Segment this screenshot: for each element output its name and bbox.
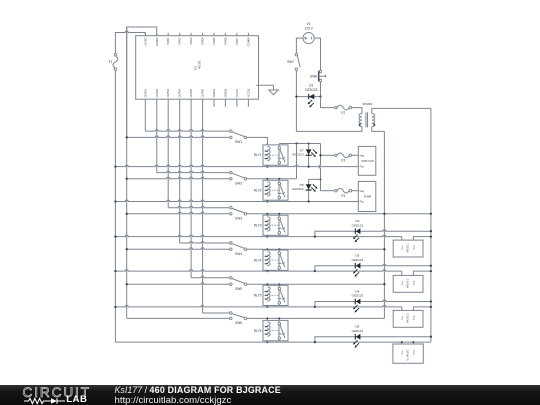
svg-text:Pos: Pos (402, 350, 404, 355)
node B junction (319, 95, 321, 97)
node D8 cathode junction (307, 200, 309, 202)
switch SW5 (230, 277, 233, 280)
IC U1 bottom pin 18 (224, 99, 226, 107)
svg-text:120 V: 120 V (304, 27, 313, 31)
node RLY5 contact pin junction (278, 283, 280, 285)
node supply bus row 5 (126, 283, 128, 285)
node relay supply row 5 (383, 283, 385, 285)
IC U1 top pin 8 (224, 33, 226, 36)
node D7 cathode junction (307, 165, 309, 167)
wire SW2 common to bus (247, 178, 297, 180)
wire SW6 common to bus (247, 317, 385, 319)
node VALVE 1 right pin junction (430, 235, 432, 237)
switch SW4 (230, 242, 233, 245)
IC U1 top pin 2 (156, 33, 158, 36)
wire F3 feed (321, 154, 335, 156)
switch SW3 (230, 206, 233, 209)
transformer XFMR1 core (365, 112, 367, 127)
wire F4 to PUMP box (352, 190, 359, 192)
node VALVE 3 right pin junction (430, 306, 432, 308)
svg-text:Pos: Pos (360, 201, 365, 204)
node neutral bus row 4 (114, 270, 116, 272)
svg-text:Neg: Neg (360, 190, 365, 193)
IC U1 bottom pin 20 (247, 99, 249, 107)
valve box VALVE 2 (393, 275, 423, 292)
wire right return bus (430, 108, 432, 342)
switch SW6 (230, 312, 233, 315)
wire left supply bus (126, 27, 128, 318)
wire IC ground pin (256, 85, 273, 90)
IC U1 top pin 5 (190, 33, 192, 36)
wire MASTER left pin (401, 342, 403, 344)
IC U1 top pin 10 (247, 33, 249, 36)
relay RLY5 (263, 285, 279, 305)
LED D7 (308, 144, 310, 167)
wire F3 to PWR box (352, 154, 359, 156)
wire VALVE 3 left pin (401, 307, 403, 311)
node supply bus row 4 (126, 248, 128, 250)
wire RLY4 coil pin (266, 248, 268, 251)
IC U1 bottom pin 19 (236, 99, 238, 107)
wire IC pin1 to SW1 top (144, 99, 146, 131)
ground symbol (269, 90, 279, 95)
wire IC pin4 to SW4 top (179, 99, 181, 243)
node D3 right junction (430, 265, 432, 267)
wire rung row 6 (115, 341, 431, 343)
svg-text:GED123: GED123 (352, 294, 364, 298)
wire rung row 5 (115, 305, 401, 306)
svg-text:OUT02: OUT02 (155, 88, 159, 97)
svg-text:Pos: Pos (402, 280, 404, 285)
svg-text:SW1: SW1 (235, 140, 242, 144)
node relay supply row 3 right (430, 213, 432, 215)
node MASTER left pin junction (401, 341, 403, 343)
wire D2 branch (315, 230, 431, 237)
LED D3 (356, 263, 361, 269)
IC U1 top pin 4 (179, 33, 181, 36)
valve box VALVE 3 (393, 310, 423, 327)
node supply bus row 2 (126, 178, 128, 180)
node D4 stub junction (314, 306, 316, 308)
svg-text:F3: F3 (341, 159, 345, 163)
svg-text:Neg: Neg (360, 154, 365, 157)
svg-text:GND02: GND02 (223, 88, 227, 97)
wire XFMR1 primary return (296, 127, 362, 132)
wire VALVE 2 right pin (413, 271, 431, 275)
svg-text:F1: F1 (109, 60, 113, 64)
node RLY3 contact pin junction (278, 213, 280, 215)
svg-text:PWR SUP: PWR SUP (361, 159, 373, 163)
wire XFMR1 secondary bottom (372, 127, 385, 132)
node D4 right junction (430, 300, 432, 302)
wire IC pin2 to SW2 top (156, 99, 158, 172)
svg-text:Neg: Neg (414, 315, 416, 320)
IC U1 body (136, 36, 259, 99)
LED D5 (356, 334, 361, 340)
wire RLY1 coil to rung (266, 165, 268, 166)
voltage source V1 (303, 33, 314, 44)
relay RLY2 (263, 180, 279, 200)
svg-text:RLY5: RLY5 (254, 294, 262, 298)
wire SW4 common to bus (247, 248, 385, 250)
IC U1 top pin 7 (213, 33, 215, 36)
node RLY6 coil pin junction (266, 317, 268, 319)
wire F4 feed (321, 190, 335, 192)
svg-text:Neg: Neg (414, 350, 416, 355)
node coil-rung row 1 (266, 165, 268, 167)
node D8 jog junction (320, 178, 322, 180)
svg-text:SW5: SW5 (235, 287, 242, 291)
node D7 anode junction (308, 143, 310, 145)
svg-text:RLY6: RLY6 (254, 329, 262, 333)
LED D2 (356, 228, 361, 234)
svg-text:XFMR1: XFMR1 (362, 102, 372, 106)
node relay supply row 3 (383, 213, 385, 215)
IC U1 top pin 1 (144, 33, 146, 36)
svg-text:GED123: GED123 (305, 88, 317, 92)
svg-text:SW2: SW2 (235, 181, 242, 185)
wire loop supply bus to IC pin2 (127, 27, 157, 137)
svg-text:GED123: GED123 (352, 258, 364, 262)
svg-text:INP03: INP03 (189, 37, 193, 45)
relay RLY4 (263, 250, 279, 270)
svg-text:PUMP: PUMP (364, 194, 372, 198)
wire RLY5 contact pin (278, 284, 280, 285)
IC U1 top pin 9 (236, 33, 238, 36)
svg-text:RLY4: RLY4 (254, 258, 262, 262)
switch SW8 pushbutton (319, 70, 322, 73)
node RLY3 coil pin junction (266, 213, 268, 215)
node RLY6 contact pin junction (278, 317, 280, 319)
wire RLY2 coil to rung (266, 200, 268, 201)
svg-text:RLY1: RLY1 (254, 153, 262, 157)
node coil-rung row 4 (266, 270, 268, 272)
svg-text:F4: F4 (341, 194, 345, 198)
node D3 stub junction (314, 270, 316, 272)
node F3 feed junction (319, 154, 321, 156)
switch SW7 (295, 53, 298, 56)
wire D8 anode jog (309, 179, 321, 184)
node RLY2 contact pin junction (278, 178, 280, 180)
svg-text:SW7: SW7 (287, 60, 294, 64)
node D5 stub junction (314, 341, 316, 343)
power supply box PWR SUP (358, 146, 376, 175)
LED D8 (308, 184, 310, 201)
wire F2 to XFMR1 primary (352, 108, 362, 114)
svg-text:GED123: GED123 (292, 152, 304, 156)
svg-text:4017B: 4017B (197, 61, 201, 69)
wire node A to node B through D1 (296, 96, 320, 98)
wire rung row 1 (115, 165, 358, 167)
svg-text:VALVE 2: VALVE 2 (407, 278, 410, 288)
wire D3 branch (315, 264, 431, 271)
node coil-rung row 6 (266, 341, 268, 343)
node supply bus row 1 (126, 136, 128, 138)
svg-text:M. VALVE: M. VALVE (407, 349, 410, 360)
wire SW5 common to bus (247, 283, 385, 285)
svg-text:RLY3: RLY3 (254, 223, 262, 227)
svg-text:COM08: COM08 (246, 37, 250, 46)
wire RLY5 coil to rung (266, 306, 268, 307)
svg-text:GND03: GND03 (155, 37, 159, 46)
wire VALVE 3 right pin (413, 307, 431, 311)
svg-text:SW3: SW3 (235, 216, 242, 220)
transformer XFMR1 primary winding (359, 114, 362, 127)
transformer XFMR1 phase dots (359, 124, 361, 126)
wire supply bus to SW2 bottom (127, 177, 230, 179)
node neutral bus row 3 (114, 235, 116, 237)
node MASTER right pin junction (412, 341, 414, 343)
svg-text:INP07: INP07 (235, 37, 239, 45)
svg-text:INP01: INP01 (166, 37, 170, 45)
valve box MASTER (393, 344, 423, 363)
node neutral bus row 1 (114, 165, 116, 167)
wire feeder node D to F3/F4 (319, 144, 321, 191)
svg-text:VALVE 1: VALVE 1 (407, 243, 410, 253)
svg-text:GED123: GED123 (352, 223, 364, 227)
wire relay common bus (296, 144, 298, 179)
wire IC pin3 to SW3 top (167, 99, 169, 208)
wire RLY3 coil to rung (266, 235, 268, 236)
svg-text:Pos: Pos (402, 315, 404, 320)
wire RLY6 contact pin (278, 318, 280, 320)
wire supply bus to SW3 bottom (127, 212, 230, 213)
wire RLY6 coil pin (266, 318, 268, 320)
svg-text:GND01: GND01 (212, 88, 216, 97)
node coil-rung row 3 (266, 235, 268, 237)
svg-text:OUT04: OUT04 (178, 88, 182, 97)
node D2 stub junction (314, 235, 316, 237)
node RLY2 coil pin junction (266, 178, 268, 180)
node A junction (295, 95, 297, 97)
LED D4 (356, 299, 361, 305)
switch SW2 (230, 171, 233, 174)
wire RLY6 coil to rung (266, 341, 268, 342)
node RLY5 coil pin junction (266, 283, 268, 285)
node coil-rung row 2 (266, 200, 268, 202)
svg-text:Pos: Pos (402, 245, 404, 250)
wire IC pin6 to SW6 top (202, 99, 204, 313)
svg-text:INP05: INP05 (212, 37, 216, 45)
wire D4 branch (315, 300, 431, 307)
svg-text:Neg: Neg (414, 245, 416, 250)
relay RLY1 (263, 145, 279, 165)
wire RLY4 coil to rung (266, 269, 268, 272)
wire RLY2 contact pin (278, 179, 280, 181)
wire VALVE 1 right pin (413, 237, 431, 241)
node D2 right junction (430, 230, 432, 232)
svg-text:F2: F2 (341, 111, 345, 115)
wire RLY1 contact to node D (279, 143, 320, 145)
wire D5 branch (315, 337, 431, 342)
svg-text:INP06: INP06 (223, 37, 227, 45)
svg-text:SW8: SW8 (310, 74, 317, 78)
wire rung row 3 (115, 235, 401, 237)
LED D1 (309, 94, 315, 99)
node D5 right junction (430, 336, 432, 338)
svg-text:OUT06: OUT06 (201, 88, 205, 97)
svg-text:Pos: Pos (360, 166, 365, 169)
fuse F3 (335, 154, 338, 157)
node neutral bus row 2 (114, 200, 116, 202)
wire MASTER right pin (412, 342, 414, 344)
relay RLY3 (263, 215, 279, 235)
svg-text:SW4: SW4 (235, 252, 242, 256)
node VALVE 2 right pin junction (430, 270, 432, 272)
svg-text:OUT05: OUT05 (189, 88, 193, 97)
wire XFMR1 secondary top to right bus (372, 108, 431, 113)
node neutral bus row 5 (114, 306, 116, 308)
node RLY4 coil pin junction (266, 248, 268, 250)
svg-text:OUT03: OUT03 (166, 88, 170, 97)
wire node B to fuse F2 (321, 97, 335, 108)
node coil-rung row 5 (266, 306, 268, 308)
wire RLY3 coil pin (266, 214, 268, 215)
wire rung row 4 (115, 270, 401, 272)
node D junction (295, 142, 297, 144)
fuse F2 (335, 106, 338, 109)
node supply bus row 3 (126, 213, 128, 215)
node relay supply row 4 (383, 248, 385, 250)
svg-text:INP02: INP02 (178, 37, 182, 45)
svg-text:SW6: SW6 (235, 321, 242, 325)
wire V1 left lead (296, 38, 303, 53)
wire RLY4 contact pin (278, 248, 280, 251)
svg-text:OUT01: OUT01 (143, 88, 147, 97)
relay RLY6 (263, 320, 279, 340)
wire SW7 to node A (295, 71, 297, 132)
wire secondary bus down to relay supply (383, 131, 385, 318)
wire VALVE 2 left pin (401, 271, 403, 275)
fuse F1 (114, 53, 117, 56)
IC U1 top pin 3 (167, 33, 169, 36)
svg-text:NCC01: NCC01 (235, 88, 239, 97)
valve box VALVE 1 (393, 240, 423, 257)
wire RLY1 contact pin (278, 144, 280, 145)
wire supply bus to SW4 bottom (127, 248, 230, 250)
svg-text:NCC02: NCC02 (246, 88, 250, 97)
svg-text:+5VDC: +5VDC (143, 37, 147, 46)
wire V1 right lead (314, 38, 320, 70)
wire supply bus to SW6 bottom (127, 317, 230, 319)
wire SW3 common to bus (247, 213, 431, 215)
node RLY4 contact pin junction (278, 248, 280, 250)
wire supply bus to SW5 bottom (127, 283, 230, 285)
fuse F4 (335, 189, 338, 192)
wire loop left bus to IC pin1 (115, 31, 145, 47)
svg-text:INP04: INP04 (201, 37, 205, 45)
wire RLY5 coil pin (266, 284, 268, 285)
svg-text:RLY2: RLY2 (254, 188, 262, 192)
wire RLY3 contact pin (278, 214, 280, 215)
switch SW1 (230, 130, 233, 133)
svg-text:VALVE 3: VALVE 3 (407, 313, 410, 323)
pump box PUMP (358, 181, 376, 211)
wire SW1 common to relay coil (247, 137, 268, 145)
IC U1 top pin 6 (202, 33, 204, 36)
svg-text:GED123: GED123 (352, 329, 364, 333)
svg-text:V1: V1 (307, 22, 311, 26)
wire RLY2 coil pin (266, 179, 268, 181)
transformer XFMR1 secondary winding (372, 114, 375, 127)
svg-text:Neg: Neg (414, 280, 416, 285)
svg-text:GED123: GED123 (292, 187, 304, 191)
wire IC pin5 to SW5 top (190, 99, 192, 278)
wire VALVE 1 left pin (401, 237, 403, 241)
wire supply bus to SW1 bottom (127, 136, 230, 138)
IC U1 bottom pin 17 (213, 99, 215, 107)
wire rung row 2 (115, 200, 358, 201)
wire left neutral bus (114, 47, 116, 53)
wire SW8 to node B (320, 82, 322, 97)
